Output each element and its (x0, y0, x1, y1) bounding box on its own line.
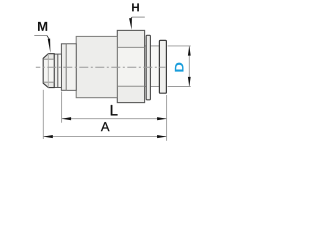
M underline (34, 35, 47, 37)
cylinder (D section) (145, 46, 160, 87)
centerline (36, 66, 166, 68)
L arrow left (62, 117, 72, 120)
nut M (43, 54, 54, 88)
washer light band (58, 55, 61, 87)
L dimension line (62, 118, 167, 120)
flange (159, 40, 166, 93)
nut chamfer line (47, 54, 49, 88)
ring (146, 35, 150, 100)
label M (38, 22, 47, 31)
nut facet line upper (43, 58, 54, 60)
label A (101, 122, 110, 131)
hex chamfer line lower (117, 85, 144, 87)
M leader arrow (48, 39, 51, 53)
L extension line left (61, 92, 63, 123)
nut flat face highlight (44, 60, 54, 82)
A dimension line (43, 136, 166, 138)
label H (132, 3, 139, 11)
main body (76, 36, 117, 97)
hex flat face highlight (118, 48, 144, 86)
D dimension line (188, 46, 190, 86)
hex section (117, 30, 144, 102)
collar facet line (65, 44, 67, 91)
label D (175, 63, 184, 72)
A arrow left (43, 135, 53, 138)
L/A extension line right (166, 95, 168, 141)
D extension line bottom (168, 86, 191, 88)
D arrow down (188, 77, 191, 87)
H leader arrow (129, 18, 132, 30)
D extension line top (168, 45, 191, 47)
H underline (132, 16, 145, 18)
A extension line left (42, 90, 44, 139)
A arrow right (157, 135, 167, 138)
label L (111, 105, 118, 115)
M leader line (47, 36, 49, 39)
washer divider (57, 54, 59, 87)
D arrow up (188, 46, 191, 56)
washer stack (54, 54, 61, 87)
L arrow right (157, 117, 167, 120)
nut facet line lower (43, 81, 54, 83)
collar (61, 44, 76, 91)
hex chamfer line upper (117, 46, 144, 48)
collar light band (67, 44, 76, 89)
H leader line (131, 17, 133, 18)
